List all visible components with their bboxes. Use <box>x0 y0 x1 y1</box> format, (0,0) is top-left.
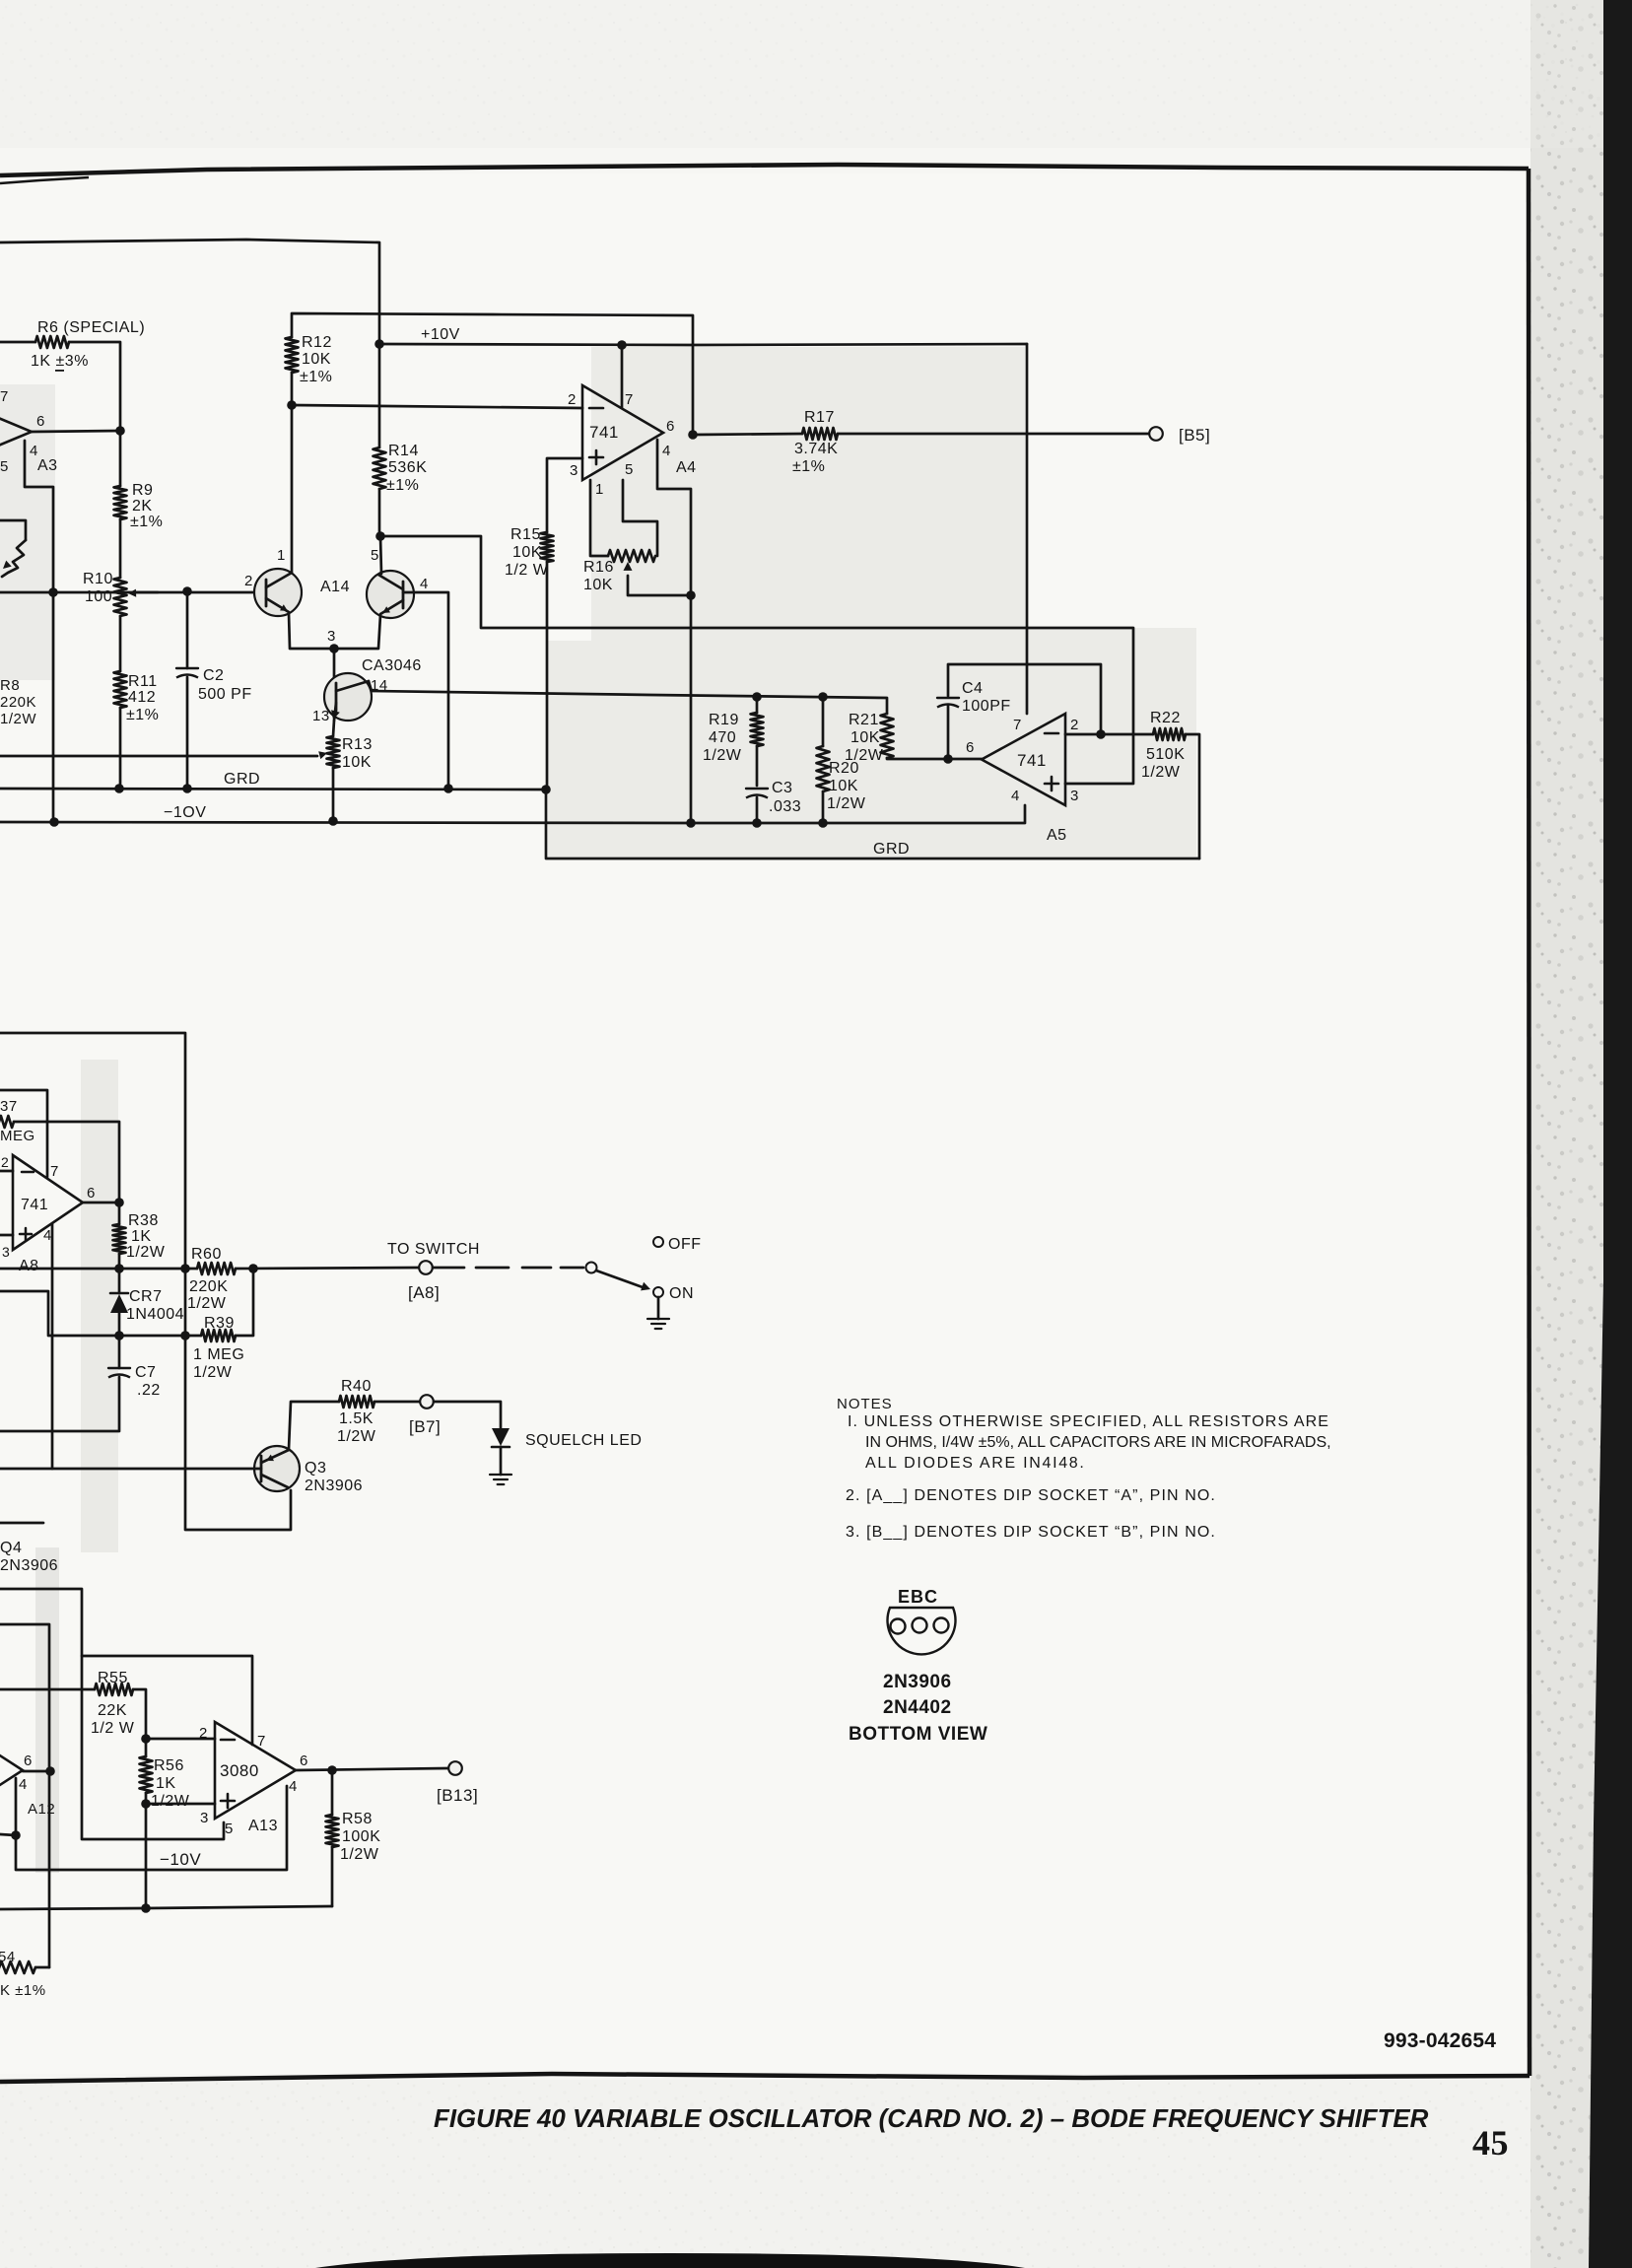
resistor R54 fragment <box>0 1961 35 1973</box>
wire A13 pin3 <box>146 1803 215 1806</box>
svg-text:MEG: MEG <box>0 1128 35 1144</box>
interior of schematic frame <box>0 173 1528 2074</box>
svg-text:6: 6 <box>666 418 675 435</box>
wire Q2 emitter to node 3 <box>334 615 380 649</box>
svg-text:R38: R38 <box>128 1212 159 1229</box>
resistor R13 pot <box>327 736 340 768</box>
svg-text:10K: 10K <box>583 577 613 593</box>
svg-text:6: 6 <box>966 739 975 756</box>
svg-text:1/2W: 1/2W <box>845 747 884 764</box>
svg-text:C4: C4 <box>962 680 983 697</box>
black right edge band <box>1603 0 1632 2268</box>
capacitor C7 <box>108 1367 130 1369</box>
svg-text:2K: 2K <box>132 498 153 515</box>
svg-text:OFF: OFF <box>668 1236 702 1253</box>
svg-text:7: 7 <box>1013 717 1022 733</box>
svg-text:BOTTOM VIEW: BOTTOM VIEW <box>849 1724 987 1745</box>
svg-text:6: 6 <box>24 1753 33 1769</box>
svg-text:C2: C2 <box>203 667 224 684</box>
diode CR7 1N4004 <box>118 1269 121 1293</box>
svg-text:R21: R21 <box>849 712 879 728</box>
resistor R6 (SPECIAL) <box>0 341 35 344</box>
transistor Q3 2N3906 <box>254 1446 300 1491</box>
svg-text:7: 7 <box>0 388 9 405</box>
svg-text:GRD: GRD <box>224 771 260 788</box>
wire A13 output node <box>296 1768 448 1770</box>
svg-text:[B7]: [B7] <box>409 1417 441 1436</box>
svg-text:1K: 1K <box>156 1775 176 1792</box>
svg-text:2N3906: 2N3906 <box>305 1478 363 1494</box>
svg-text:1/2W: 1/2W <box>151 1793 190 1810</box>
wire A4 pin5 <box>623 480 657 556</box>
svg-text:−1OV: −1OV <box>164 804 206 821</box>
svg-text:1/2W: 1/2W <box>337 1428 376 1445</box>
transistor Q2 of A14 (CA3046 pins 5,4,3) <box>367 571 414 618</box>
wire A12 pin4 to -10V <box>0 1834 16 1870</box>
wire R10 wiper / Q1 base line <box>0 591 266 594</box>
wire A5 output <box>948 758 982 761</box>
wire A4 pin1 <box>590 480 608 556</box>
wire Q4 emitter loop to A13 pin5 <box>0 1589 224 1839</box>
wire +10V feed from left edge <box>0 240 379 344</box>
svg-text:2N3906: 2N3906 <box>0 1557 58 1574</box>
svg-text:4: 4 <box>289 1778 298 1795</box>
svg-text:I. UNLESS OTHERWISE SPECIFIED,: I. UNLESS OTHERWISE SPECIFIED, ALL RESIS… <box>848 1413 1329 1430</box>
resistor R20 <box>822 697 825 746</box>
wire Q3 collector to R40 <box>289 1402 339 1449</box>
svg-text:3: 3 <box>200 1810 209 1826</box>
svg-text:1 MEG: 1 MEG <box>193 1346 244 1363</box>
svg-text:3. [B__] DENOTES DIP SOCKET “B: 3. [B__] DENOTES DIP SOCKET “B”, PIN NO. <box>846 1524 1216 1541</box>
wire Q2 base down to GRD <box>403 592 448 789</box>
wire A13 pin4 to -10V rail <box>17 1786 287 1870</box>
resistor R16 pot <box>608 550 655 562</box>
svg-text:3080: 3080 <box>220 1761 259 1780</box>
svg-text:±1%: ±1% <box>130 514 163 530</box>
svg-text:5: 5 <box>0 458 9 475</box>
squelch LED diode <box>492 1428 510 1446</box>
wire Q2 collector to R14 node <box>380 536 381 574</box>
svg-text:3: 3 <box>1070 788 1079 804</box>
wire R56 bottom to R58 rail <box>145 1804 148 1908</box>
svg-text:.033: .033 <box>769 798 801 815</box>
svg-text:C3: C3 <box>772 780 792 796</box>
svg-text:10K: 10K <box>850 729 880 746</box>
svg-text:2N4402: 2N4402 <box>883 1697 952 1718</box>
wire A8 pin7 supply loop <box>0 1090 47 1177</box>
svg-text:R12: R12 <box>302 334 332 351</box>
svg-text:−10V: −10V <box>160 1850 201 1869</box>
resistor R9 <box>114 486 127 519</box>
svg-text:10K: 10K <box>342 754 372 771</box>
resistor R58 <box>331 1770 334 1815</box>
R10 wiper arrow <box>136 591 158 594</box>
svg-text:±1%: ±1% <box>126 707 159 723</box>
svg-text:EBC: EBC <box>898 1587 938 1607</box>
resistor R40 <box>339 1396 374 1408</box>
svg-text:1.5K: 1.5K <box>339 1410 374 1427</box>
capacitor C4 feedback <box>947 706 950 759</box>
svg-text:1/2W: 1/2W <box>0 711 36 727</box>
svg-text:22K: 22K <box>98 1702 127 1719</box>
svg-text:1N4004: 1N4004 <box>126 1306 184 1323</box>
svg-text:220K: 220K <box>0 694 36 711</box>
svg-text:NOTES: NOTES <box>837 1396 893 1412</box>
svg-text:R10: R10 <box>83 571 113 587</box>
OFF contact <box>653 1237 663 1247</box>
svg-text:100: 100 <box>85 588 112 605</box>
scan shading patch around A3 <box>0 384 55 680</box>
svg-text:536K: 536K <box>388 459 427 476</box>
svg-text:R17: R17 <box>804 409 835 426</box>
wire Q13 emitter to R13 <box>333 721 334 736</box>
wire Q1 collector to R12 node <box>291 405 294 572</box>
wire A3 pin4 to -10V <box>25 441 53 822</box>
resistor R22 <box>1153 728 1186 740</box>
svg-text:R14: R14 <box>388 443 419 459</box>
capacitor C2 <box>182 586 192 596</box>
resistor R11 <box>119 616 122 671</box>
svg-text:5: 5 <box>625 461 634 478</box>
svg-text:1: 1 <box>595 481 604 498</box>
svg-text:1/2 W: 1/2 W <box>91 1720 135 1737</box>
dashed line to switch <box>476 1267 509 1270</box>
wire from edge through A12 output column <box>0 1624 49 1967</box>
svg-text:±1%: ±1% <box>386 477 419 494</box>
svg-text:1K ±3%: 1K ±3% <box>31 353 89 370</box>
switch arm to ON <box>596 1271 643 1287</box>
resistor R12 <box>292 313 693 435</box>
svg-text:1/2 W: 1/2 W <box>505 562 549 579</box>
svg-text:6: 6 <box>300 1753 308 1769</box>
svg-text:1K: 1K <box>131 1228 152 1245</box>
wire A8 pin4 down <box>51 1224 54 1469</box>
svg-text:37: 37 <box>0 1098 18 1115</box>
svg-text:13: 13 <box>312 708 330 724</box>
resistor R17 <box>693 434 802 435</box>
wire Q13 collector rail to R21 <box>369 681 887 714</box>
resistor R14 <box>378 344 381 447</box>
svg-text:7: 7 <box>50 1163 59 1180</box>
svg-text:1/2W: 1/2W <box>340 1846 379 1863</box>
svg-text:1/2W: 1/2W <box>126 1244 166 1261</box>
op-amp A5 741 (left pointing) <box>982 714 1065 805</box>
svg-text:Q4: Q4 <box>0 1540 22 1556</box>
svg-text:+10V: +10V <box>421 326 460 343</box>
wire A3 output to node <box>32 431 120 432</box>
svg-text:3: 3 <box>2 1244 10 1260</box>
wire A13 pin7 feedback loop <box>82 1656 252 1745</box>
svg-text:741: 741 <box>21 1197 48 1213</box>
op-amp A4 741 <box>582 385 663 480</box>
wire A4 output node <box>688 430 698 440</box>
capacitor C3 <box>746 788 768 790</box>
svg-text:2: 2 <box>1070 717 1079 733</box>
R16 wiper to A4 pin4 line <box>624 562 633 571</box>
wire Q1 emitter to node 3 <box>289 613 334 649</box>
svg-text:FIGURE 40 VARIABLE OSCILLATOR: FIGURE 40 VARIABLE OSCILLATOR (CARD NO. … <box>434 2105 1429 2133</box>
svg-text:R58: R58 <box>342 1811 373 1827</box>
svg-text:R9: R9 <box>132 482 153 499</box>
switch rail with R60 <box>0 1268 197 1271</box>
svg-text:1/2W: 1/2W <box>193 1364 233 1381</box>
svg-text:1/2W: 1/2W <box>703 747 742 764</box>
svg-text:100PF: 100PF <box>962 698 1011 715</box>
svg-text:CA3046: CA3046 <box>362 657 422 674</box>
svg-text:220K: 220K <box>189 1278 228 1295</box>
bottom margin noise <box>0 2080 1530 2268</box>
svg-text:C7: C7 <box>135 1364 156 1381</box>
svg-text:2. [A__] DENOTES DIP SOCKET “A: 2. [A__] DENOTES DIP SOCKET “A”, PIN NO. <box>846 1487 1216 1504</box>
svg-text:1/2W: 1/2W <box>827 795 866 812</box>
svg-text:2: 2 <box>244 573 253 589</box>
right margin noise strip <box>1530 0 1604 2268</box>
svg-text:4: 4 <box>19 1776 28 1793</box>
ON contact <box>653 1287 663 1297</box>
svg-text:54: 54 <box>0 1949 16 1965</box>
wire to squelch LED <box>434 1402 501 1428</box>
wire +10V down to A5 pin 7 <box>1026 344 1029 714</box>
resistor R15 <box>541 532 554 562</box>
op-amp A8 741 <box>13 1155 83 1250</box>
op-amp A12 (clipped) <box>0 1727 23 1814</box>
resistor R21 <box>881 714 894 758</box>
svg-text:7: 7 <box>257 1733 266 1750</box>
svg-text:1/2W: 1/2W <box>1141 764 1181 781</box>
svg-text:GRD: GRD <box>873 841 910 858</box>
resistor R10 pot <box>119 519 122 578</box>
wire supply box to A8 pin7 <box>0 1033 291 1530</box>
svg-text:2N3906: 2N3906 <box>883 1672 952 1692</box>
svg-text:.22: .22 <box>137 1382 161 1399</box>
svg-text:1/2W: 1/2W <box>187 1295 227 1312</box>
wire A13 pin2 <box>146 1738 215 1741</box>
resistor R37 feedback (clipped) <box>0 1116 14 1128</box>
resistor R19 <box>756 697 759 713</box>
svg-text:TO SWITCH: TO SWITCH <box>387 1241 480 1258</box>
svg-text:4: 4 <box>662 443 671 459</box>
svg-text:412: 412 <box>128 689 156 706</box>
wire A8 output <box>83 1202 119 1204</box>
svg-text:4: 4 <box>420 576 429 592</box>
svg-text:A14: A14 <box>320 579 350 595</box>
svg-text:510K: 510K <box>1146 746 1185 763</box>
wire A12 output <box>23 1770 50 1773</box>
wire A4 pin7 supply drop <box>621 344 624 408</box>
svg-text:SQUELCH LED: SQUELCH LED <box>525 1432 642 1449</box>
svg-text:993-042654: 993-042654 <box>1384 2029 1496 2052</box>
resistor R39 parallel loop <box>0 1291 201 1336</box>
svg-text:A13: A13 <box>248 1818 278 1834</box>
wire A8 inputs from page edge <box>0 1170 13 1173</box>
resistor R8 pot (clipped) <box>0 520 26 540</box>
GRD rail <box>0 789 546 790</box>
scan shading patch around A4 region <box>548 347 1196 857</box>
svg-text:500 PF: 500 PF <box>198 686 252 703</box>
svg-text:R13: R13 <box>342 736 373 753</box>
svg-text:R40: R40 <box>341 1378 372 1395</box>
svg-text:741: 741 <box>589 423 619 442</box>
svg-text:10K: 10K <box>829 778 858 794</box>
svg-text:10K: 10K <box>512 544 542 561</box>
svg-text:2: 2 <box>199 1725 208 1742</box>
svg-text:3.74K: 3.74K <box>794 441 838 457</box>
resistor R55 <box>0 1688 95 1691</box>
svg-text:CR7: CR7 <box>129 1288 163 1305</box>
wire R58 rail to page edge <box>0 1906 332 1909</box>
svg-text:K ±1%: K ±1% <box>0 1982 46 1999</box>
svg-text:4: 4 <box>1011 788 1020 804</box>
op-amp A13 3080 <box>215 1722 296 1819</box>
GRD return line lower <box>546 790 1199 859</box>
svg-text:R6 (SPECIAL): R6 (SPECIAL) <box>37 319 145 336</box>
svg-text:[A8]: [A8] <box>408 1283 440 1302</box>
terminal B5 <box>1149 427 1163 441</box>
wire rail to R19/R20 <box>752 692 762 702</box>
wire A4 pin4 to -10V <box>657 440 691 823</box>
svg-text:Q3: Q3 <box>305 1460 326 1477</box>
svg-text:[B5]: [B5] <box>1179 426 1210 445</box>
svg-text:5: 5 <box>225 1821 234 1837</box>
svg-text:2: 2 <box>568 391 577 408</box>
wire Q3 base from page edge <box>0 1468 261 1471</box>
bottom page-edge black blob <box>315 2253 1025 2268</box>
wire R12 bottom to A4 pin2 <box>292 405 582 408</box>
svg-text:741: 741 <box>1017 751 1047 770</box>
node +10V rail <box>379 344 1027 345</box>
transistor Q1 of A14 (CA3046 pins 1,2,3) <box>254 569 302 616</box>
svg-text:A8: A8 <box>19 1258 39 1274</box>
svg-text:5: 5 <box>371 547 379 564</box>
svg-text:3: 3 <box>570 462 578 479</box>
svg-text:6: 6 <box>87 1185 96 1202</box>
svg-text:4: 4 <box>43 1227 52 1244</box>
svg-text:7: 7 <box>625 391 634 408</box>
schematic border frame <box>0 165 1529 175</box>
scan shading streak left middle <box>81 1060 118 1552</box>
terminal B7 <box>420 1395 434 1409</box>
svg-text:IN OHMS, I/4W ±5%, ALL CAPACIT: IN OHMS, I/4W ±5%, ALL CAPACITORS ARE IN… <box>865 1434 1331 1451</box>
svg-text:1: 1 <box>277 547 286 564</box>
svg-text:±1%: ±1% <box>792 458 825 475</box>
wire A4 pin3 to R15 <box>547 458 582 532</box>
resistor R56 <box>140 1756 153 1793</box>
svg-text:R8: R8 <box>0 677 20 694</box>
svg-text:±1%: ±1% <box>300 369 332 385</box>
svg-text:R56: R56 <box>154 1757 184 1774</box>
-10V rail <box>0 805 1025 823</box>
resistor R38 <box>118 1203 121 1224</box>
svg-text:R16: R16 <box>583 559 614 576</box>
svg-text:470: 470 <box>709 729 736 746</box>
svg-text:100K: 100K <box>342 1828 380 1845</box>
svg-text:R60: R60 <box>191 1246 222 1263</box>
svg-text:ON: ON <box>669 1285 694 1302</box>
svg-text:10K: 10K <box>302 351 331 368</box>
transistor Q13 CA3046 (pins 3,14,13) <box>333 649 336 686</box>
svg-text:[B13]: [B13] <box>437 1786 478 1805</box>
svg-text:R39: R39 <box>204 1315 235 1332</box>
svg-text:R11: R11 <box>128 673 158 690</box>
switch ground <box>657 1297 660 1319</box>
svg-text:A4: A4 <box>676 459 697 476</box>
switch pivot <box>586 1263 597 1273</box>
svg-text:45: 45 <box>1472 2123 1509 2163</box>
R13 wiper line from page edge <box>0 755 317 758</box>
svg-text:R15: R15 <box>510 526 541 543</box>
svg-text:R22: R22 <box>1150 710 1181 726</box>
svg-text:A3: A3 <box>37 457 58 474</box>
svg-text:R55: R55 <box>98 1670 128 1686</box>
wire bias line to A5 pin3 <box>380 536 1133 784</box>
svg-text:2: 2 <box>1 1154 9 1170</box>
svg-text:R19: R19 <box>709 712 739 728</box>
svg-text:6: 6 <box>36 413 45 430</box>
svg-text:A12: A12 <box>28 1801 55 1818</box>
terminal A8 socket <box>419 1261 433 1274</box>
svg-text:A5: A5 <box>1047 827 1067 844</box>
wire A5 pin2 to R22 <box>1065 733 1153 736</box>
op-amp A3 (clipped at page edge) <box>0 402 32 461</box>
Q4 transistor fragment <box>0 1522 43 1525</box>
svg-text:3: 3 <box>327 628 336 645</box>
terminal B13 <box>448 1761 462 1775</box>
svg-text:ALL DIODES ARE IN4I48.: ALL DIODES ARE IN4I48. <box>865 1455 1086 1472</box>
top margin noise <box>0 0 1632 148</box>
